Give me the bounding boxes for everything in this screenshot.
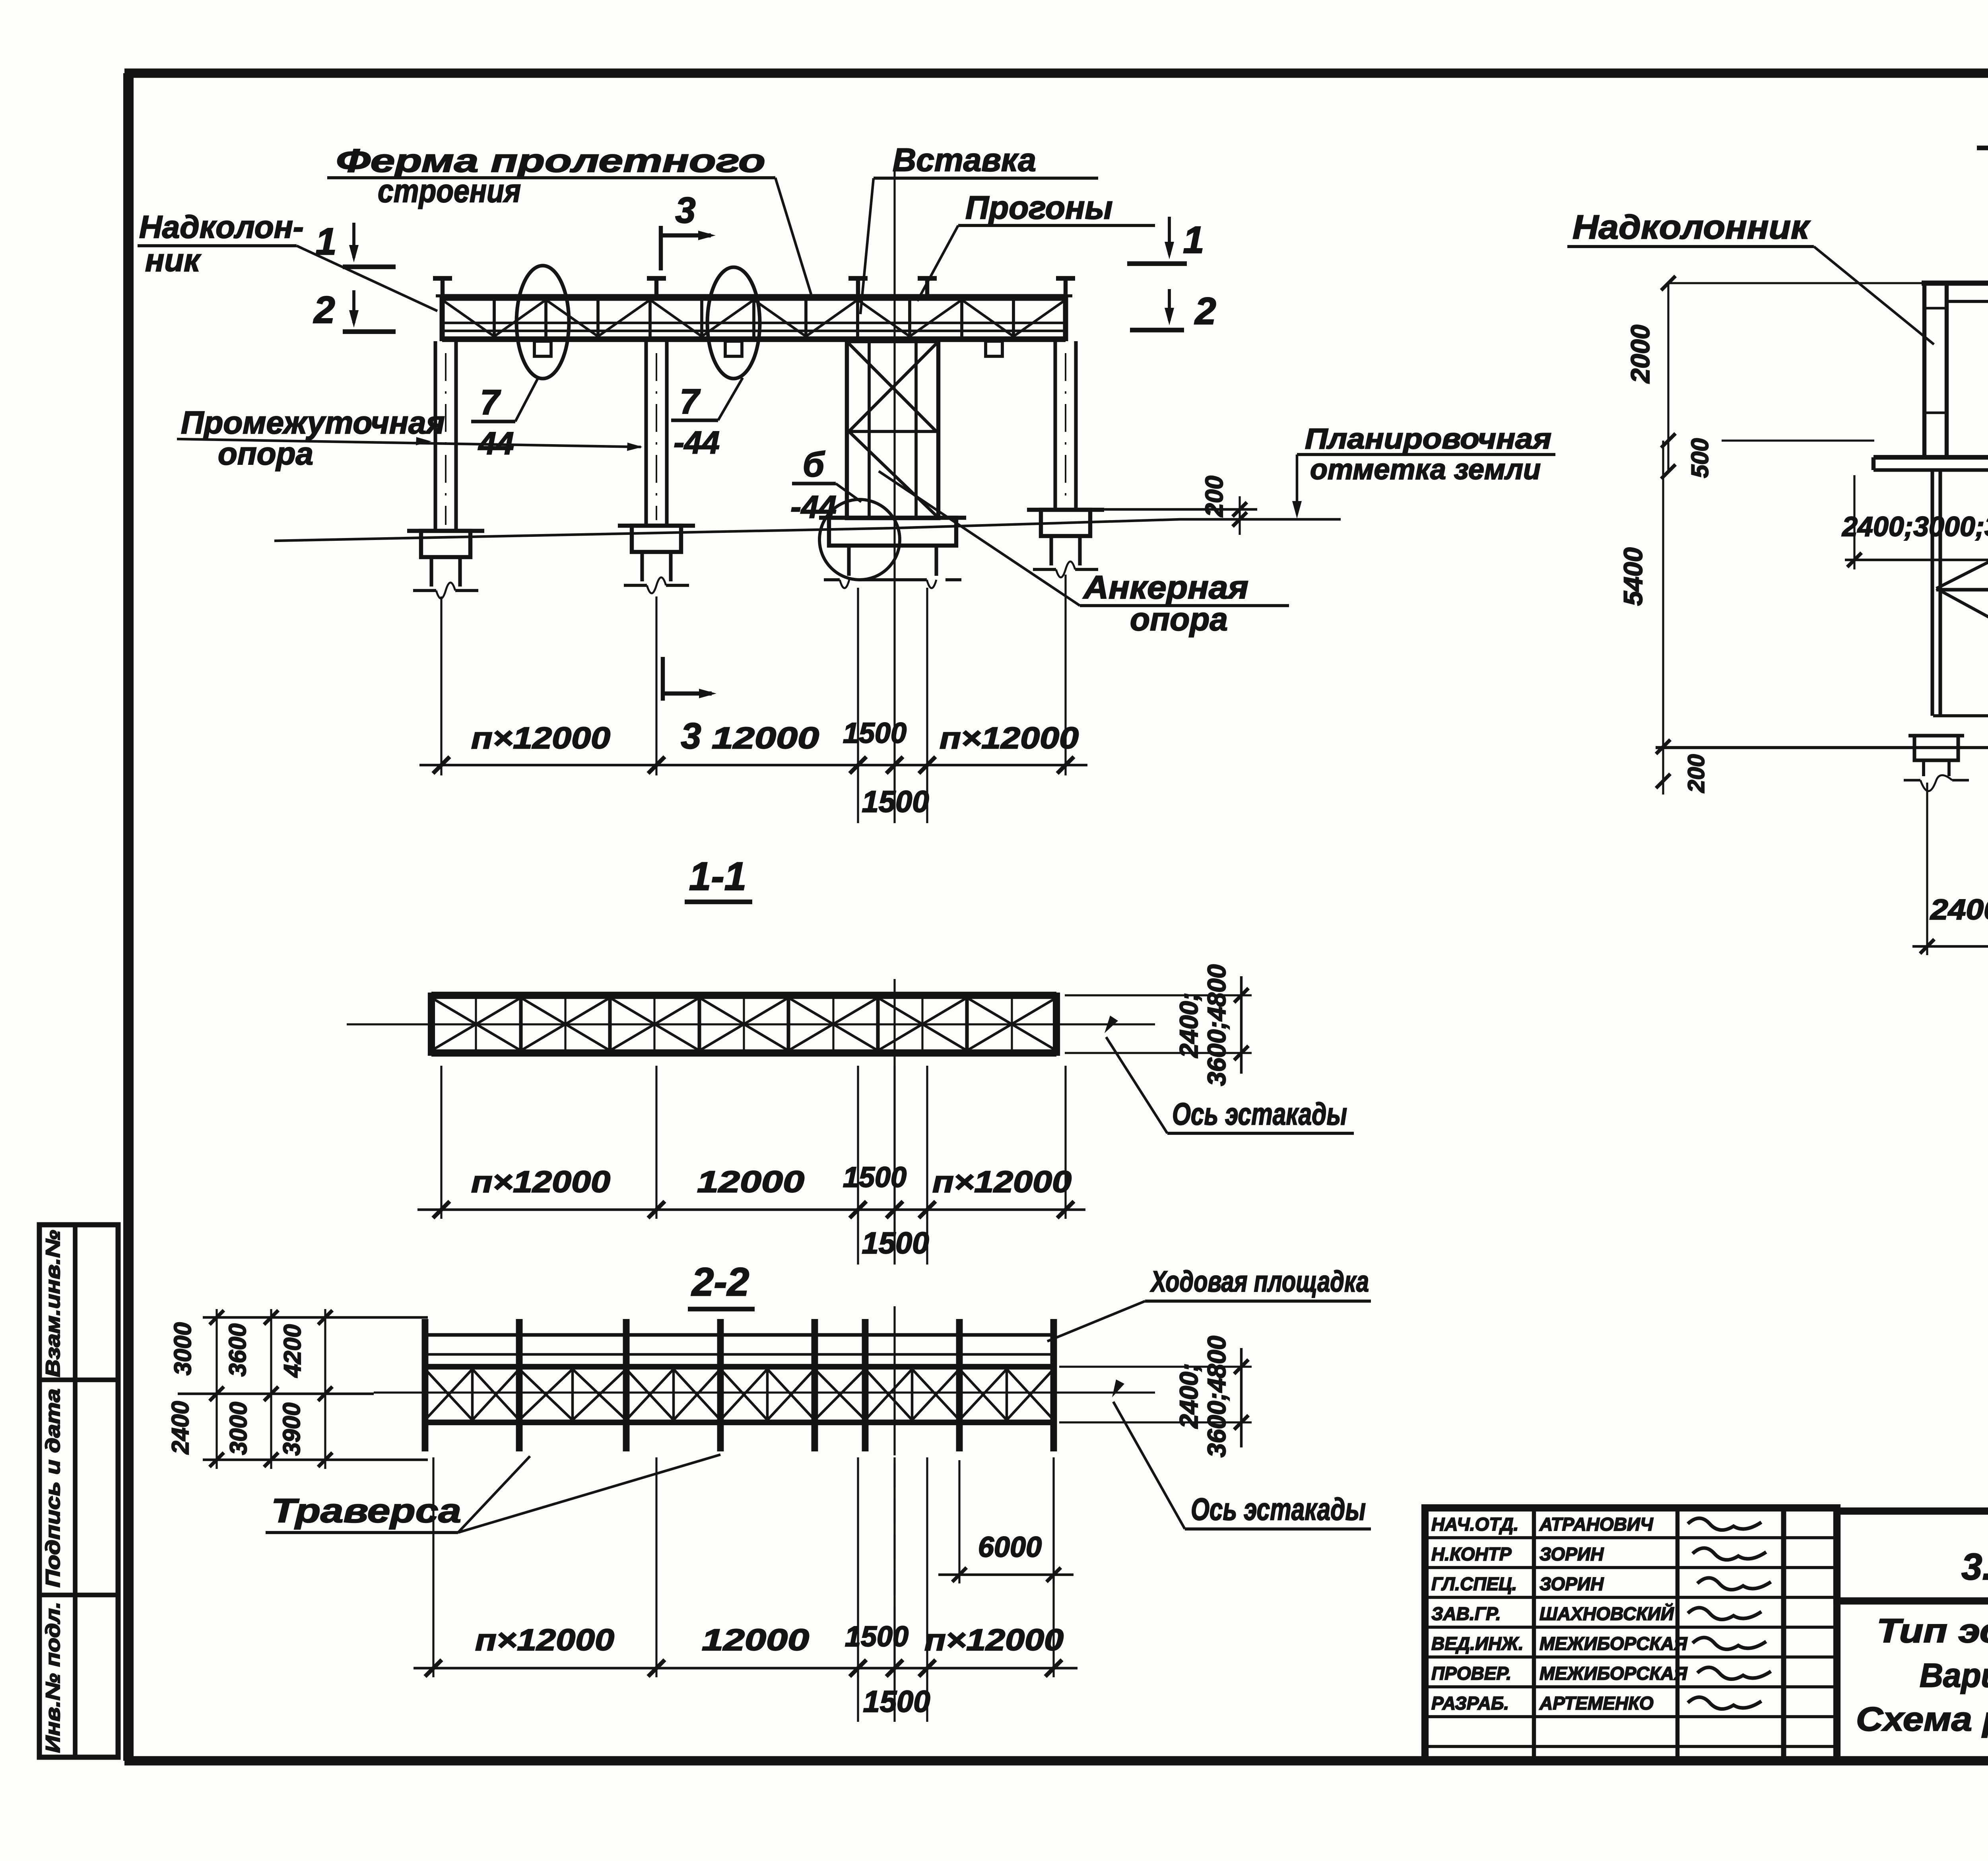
svg-text:ЗОРИН: ЗОРИН <box>1540 1573 1604 1594</box>
svg-text:Надколонник: Надколонник <box>1573 208 1811 246</box>
section mark 2 right <box>1168 289 1171 321</box>
svg-text:1500: 1500 <box>863 1685 930 1719</box>
section mark 1 right <box>1168 217 1171 254</box>
svg-text:Тип эстакады 1.: Тип эстакады 1. <box>1877 1612 1988 1649</box>
plan 1-1 truss band outline <box>431 992 1056 999</box>
elevation dimension line <box>419 764 1087 767</box>
plan 1-1 anchor axis vertical <box>893 979 895 1214</box>
section 3-3 lower columns <box>1930 470 1934 716</box>
svg-text:Ось эстакады: Ось эстакады <box>1172 1096 1347 1131</box>
bearing pads under truss joints <box>534 341 551 356</box>
section 3-3 ground line <box>1656 746 1988 749</box>
title text box <box>1837 1601 1988 1761</box>
svg-text:ник: ник <box>145 243 201 278</box>
svg-text:АРТЕМЕНКО: АРТЕМЕНКО <box>1539 1693 1654 1713</box>
svg-text:АТРАНОВИЧ: АТРАНОВИЧ <box>1539 1514 1654 1535</box>
svg-text:ЗАВ.ГР.: ЗАВ.ГР. <box>1431 1603 1501 1624</box>
plan 1-1 axis line <box>347 1023 1155 1025</box>
extension lines to elevation dim line <box>440 596 442 775</box>
svg-text:НАЧ.ОТД.: НАЧ.ОТД. <box>1431 1514 1518 1535</box>
intermediate column 1 <box>433 341 437 532</box>
svg-text:МЕЖИБОРСКАЯ: МЕЖИБОРСКАЯ <box>1540 1663 1688 1684</box>
detail circle at anchor foundation <box>819 499 900 580</box>
svg-text:2400: 2400 <box>167 1401 194 1454</box>
mid dimension 2400-3000-3900 3000-3600-4200 <box>1853 475 1855 569</box>
svg-text:2-2: 2-2 <box>691 1260 749 1304</box>
svg-text:2400;3000;3900: 2400;3000;3900 <box>1841 511 1988 542</box>
svg-text:п×12000: п×12000 <box>924 1623 1064 1657</box>
plan 2-2 traverse posts <box>422 1319 429 1451</box>
plan 1-1 right width dimension <box>1065 994 1252 996</box>
column 4 right <box>1053 341 1057 511</box>
svg-text:Инв.№ подл.: Инв.№ подл. <box>42 1602 64 1753</box>
rail stubs on truss top at supports <box>441 278 445 296</box>
svg-text:1: 1 <box>1183 219 1204 261</box>
svg-text:1500: 1500 <box>845 1621 909 1653</box>
foundation of column 2 <box>618 524 695 528</box>
svg-text:п×12000: п×12000 <box>932 1165 1072 1199</box>
svg-text:Подпись и дата: Подпись и дата <box>42 1389 64 1587</box>
svg-text:Анкерная: Анкерная <box>1083 569 1248 606</box>
svg-text:500: 500 <box>1687 438 1713 478</box>
extension lines left of section <box>1668 282 1924 284</box>
svg-text:ЗОРИН: ЗОРИН <box>1540 1544 1604 1564</box>
left foundation section 3-3 <box>1908 734 1964 737</box>
plan 1-1 panels with X bracing <box>519 995 522 1053</box>
svg-text:7: 7 <box>480 383 501 422</box>
section 3-3 cap beam <box>1922 281 1988 286</box>
svg-text:Вставка: Вставка <box>893 142 1036 178</box>
plan 1-1 dimension line <box>417 1208 1085 1211</box>
svg-text:2000: 2000 <box>1625 324 1655 384</box>
svg-text:3600: 3600 <box>224 1323 251 1376</box>
svg-text:2400;3600;4800: 2400;3600;4800 <box>1930 894 1988 926</box>
svg-text:п×12000: п×12000 <box>471 1165 610 1199</box>
svg-text:Промежуточная: Промежуточная <box>181 405 445 440</box>
foundation of anchor support <box>819 516 966 520</box>
signatures squiggles <box>1688 1518 1761 1530</box>
svg-text:п×12000: п×12000 <box>475 1623 614 1657</box>
bottom dimension 2400 3600 4800 section <box>1926 783 1928 955</box>
anchor support double column <box>847 341 938 518</box>
svg-text:7: 7 <box>680 382 701 421</box>
svg-text:1-1: 1-1 <box>689 854 747 899</box>
left margin stamp boxes <box>39 1225 118 1757</box>
svg-text:МЕЖИБОРСКАЯ: МЕЖИБОРСКАЯ <box>1540 1633 1688 1654</box>
ground line elevation <box>274 528 895 541</box>
svg-text:-44: -44 <box>674 425 720 460</box>
svg-text:ШАХНОВСКИЙ: ШАХНОВСКИЙ <box>1540 1603 1674 1624</box>
plan 2-2 dimension line <box>414 1667 1077 1670</box>
plan 2-2 axis line <box>374 1391 1155 1393</box>
svg-text:6000: 6000 <box>978 1531 1042 1563</box>
svg-text:1500: 1500 <box>862 785 929 819</box>
svg-text:ПРОВЕР.: ПРОВЕР. <box>1431 1663 1511 1684</box>
plan 2-2 walkway deck lines <box>425 1333 1054 1337</box>
svg-text:200: 200 <box>1683 754 1709 793</box>
svg-text:3000: 3000 <box>225 1402 252 1455</box>
svg-text:2400;: 2400; <box>1175 993 1203 1058</box>
svg-text:1500: 1500 <box>862 1226 929 1260</box>
section mark 3 upper <box>659 226 663 270</box>
svg-text:3: 3 <box>681 716 701 756</box>
svg-text:Прогоны: Прогоны <box>965 190 1113 226</box>
svg-text:4200: 4200 <box>279 1324 306 1377</box>
svg-text:Планировочная: Планировочная <box>1305 423 1551 455</box>
svg-text:2: 2 <box>1194 290 1216 332</box>
detail balloon oval left joint <box>516 266 569 379</box>
svg-text:ВЕД.ИНЖ.: ВЕД.ИНЖ. <box>1431 1633 1524 1654</box>
svg-text:3.015.2-15.1-10: 3.015.2-15.1-10 <box>1961 1546 1988 1587</box>
dim 500 vertical <box>1667 441 1669 472</box>
svg-text:п×12000: п×12000 <box>940 721 1079 755</box>
foundation of column 4 <box>1027 508 1104 512</box>
svg-text:Взам.инв.№: Взам.инв.№ <box>42 1230 64 1377</box>
svg-text:ГЛ.СПЕЦ.: ГЛ.СПЕЦ. <box>1431 1573 1517 1594</box>
svg-text:2: 2 <box>313 289 335 331</box>
sheet frame border <box>124 68 1988 78</box>
document number box <box>1837 1511 1988 1601</box>
svg-text:Вариант 1: Вариант 1 <box>1920 1657 1988 1694</box>
section 3-3 column bracing <box>1936 472 1988 589</box>
svg-text:Надколон-: Надколон- <box>139 209 304 245</box>
elevation truss span structure <box>442 294 1066 301</box>
svg-text:Схема расположения: Схема расположения <box>1856 1700 1988 1738</box>
svg-text:3600;4800: 3600;4800 <box>1202 1336 1231 1457</box>
svg-text:РАЗРАБ.: РАЗРАБ. <box>1431 1693 1509 1713</box>
intermediate column 2 <box>644 341 648 527</box>
svg-text:Ходовая площадка: Ходовая площадка <box>1150 1265 1369 1298</box>
svg-text:12000: 12000 <box>697 1165 804 1199</box>
plan 2-2 right width dimension <box>1059 1366 1252 1368</box>
svg-text:12000: 12000 <box>702 1623 809 1657</box>
svg-text:б: б <box>803 445 825 484</box>
svg-text:3600;4800: 3600;4800 <box>1202 964 1231 1086</box>
foundation top extension and 200 dim right <box>1101 508 1257 511</box>
title block signature table <box>1425 1508 1837 1761</box>
plan 2-2 truss X bracing <box>425 1369 472 1420</box>
dim 5400 vertical <box>1662 441 1664 747</box>
svg-text:1500: 1500 <box>843 717 907 749</box>
svg-text:п×12000: п×12000 <box>471 721 610 755</box>
svg-text:Ось эстакады: Ось эстакады <box>1191 1492 1366 1527</box>
svg-text:44: 44 <box>478 425 514 461</box>
section mark 3 lower <box>661 657 665 701</box>
svg-text:-44: -44 <box>790 489 837 524</box>
dim 200 below ground <box>1662 747 1664 795</box>
svg-text:200: 200 <box>1201 476 1228 517</box>
dim 6000 in plan 2-2 <box>958 1460 960 1583</box>
svg-text:Н.КОНТР: Н.КОНТР <box>1431 1544 1512 1564</box>
anchor axis vertical line <box>893 167 895 765</box>
detail balloon oval middle joint <box>707 267 760 379</box>
traverse beam section 3-3 <box>1873 455 1988 460</box>
svg-text:отметка земли: отметка земли <box>1310 454 1541 486</box>
plan 2-2 truss band chords <box>425 1364 1054 1370</box>
left cap column nadkolonnik <box>1922 283 1926 457</box>
plan 2-2 anchor axis vertical <box>893 1306 895 1455</box>
svg-text:3000: 3000 <box>169 1322 196 1375</box>
foundation of column 1 <box>407 529 484 533</box>
svg-text:1500: 1500 <box>843 1162 907 1193</box>
svg-text:12000: 12000 <box>712 721 819 755</box>
dim 2000 vertical <box>1667 283 1669 441</box>
svg-text:2400;: 2400; <box>1175 1363 1203 1429</box>
plan 2-2 left dimension stack <box>203 1316 428 1319</box>
svg-text:5400: 5400 <box>1618 547 1648 606</box>
svg-text:3: 3 <box>675 190 695 231</box>
svg-text:3900: 3900 <box>278 1403 305 1455</box>
